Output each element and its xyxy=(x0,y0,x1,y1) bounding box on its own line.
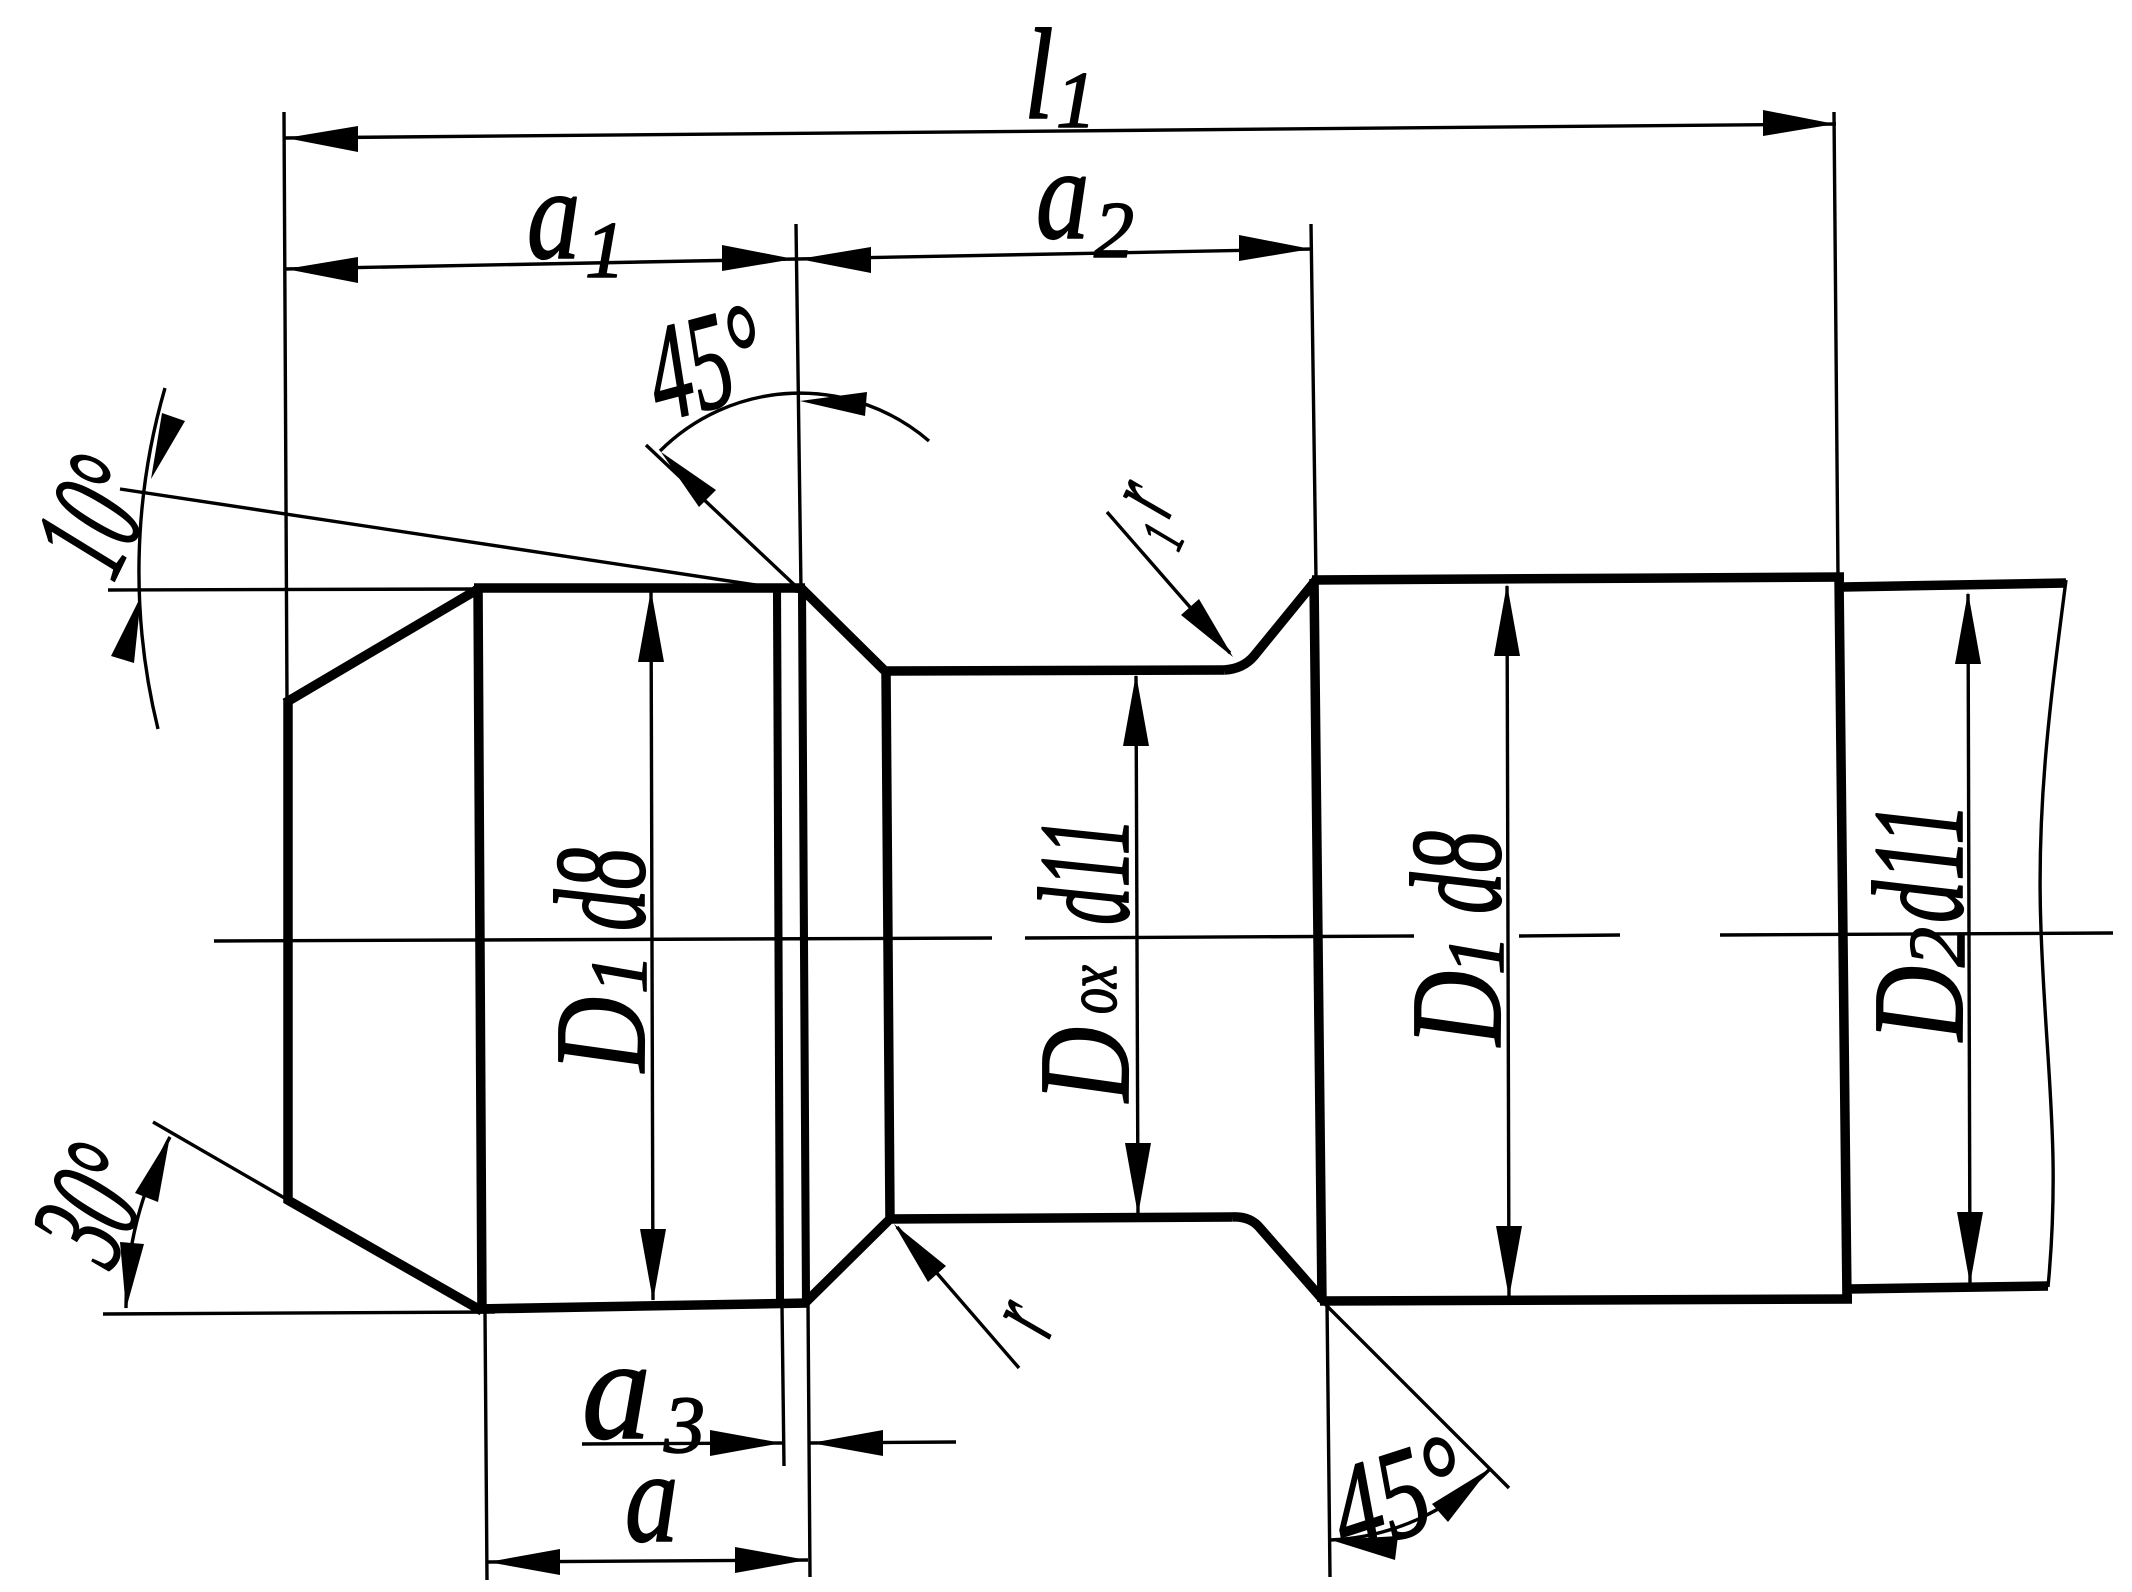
45-deg bottom arrowhead at diagonal xyxy=(1432,1469,1489,1522)
svg-text:1: 1 xyxy=(576,954,664,994)
break line (wavy) at right end xyxy=(2040,580,2066,1287)
a3 right extension line xyxy=(808,1303,810,1577)
a2 left arrowhead xyxy=(799,247,871,273)
Dox bottom arrowhead xyxy=(1125,1143,1151,1215)
Dox top arrowhead xyxy=(1123,674,1149,746)
45-deg chamfer bottom (to neck) xyxy=(806,1219,890,1302)
svg-text:a: a xyxy=(625,1425,678,1569)
shaft nose top 30-deg chamfer xyxy=(285,588,480,703)
neck-to-right-cylinder bottom fillet and diagonal xyxy=(1232,1217,1324,1301)
centerline segment 2 xyxy=(1025,936,1414,938)
svg-text:D: D xyxy=(1847,966,1991,1043)
svg-text:d11: d11 xyxy=(1846,803,1991,923)
30-deg upper arrowhead xyxy=(135,1136,170,1202)
svg-text:2: 2 xyxy=(1094,187,1134,275)
30-deg horizontal reference line xyxy=(103,1312,495,1314)
svg-text:D: D xyxy=(1013,1027,1157,1104)
left cylinder bottom edge xyxy=(477,1303,808,1309)
D2 dimension line xyxy=(1968,594,1970,1283)
D2 bottom arrowhead xyxy=(1957,1212,1983,1284)
svg-text:d8: d8 xyxy=(528,848,672,931)
D2 section top edge xyxy=(1843,583,2066,587)
D1 right dimension line xyxy=(1507,586,1509,1297)
a left arrowhead xyxy=(488,1549,560,1575)
l1 right extension line xyxy=(1834,112,1838,577)
a2 extension line right xyxy=(1311,224,1316,579)
neck bottom edge xyxy=(887,1217,1232,1219)
45-deg angle arc xyxy=(660,393,929,451)
left cylinder left edge xyxy=(478,586,482,1312)
a1/a2 middle extension line xyxy=(796,224,801,590)
svg-text:a: a xyxy=(1036,122,1089,266)
a3 dimension line left part xyxy=(582,1443,783,1444)
D1 left bottom arrowhead xyxy=(640,1229,666,1301)
shaft nose bottom 30-deg chamfer xyxy=(286,1199,482,1311)
a2 right arrowhead xyxy=(1239,235,1311,261)
a left extension line xyxy=(485,1312,487,1580)
D1 right top arrowhead xyxy=(1494,584,1520,656)
a right arrowhead xyxy=(735,1547,807,1573)
groove vertical line 2 xyxy=(802,589,806,1301)
shaft nose tip face (left vertical edge) xyxy=(283,699,293,1203)
D1 left top arrowhead xyxy=(638,590,664,662)
D1 left dimension line xyxy=(651,592,653,1300)
svg-text:2: 2 xyxy=(1894,927,1982,967)
centerline segment 4 xyxy=(1720,933,2113,935)
svg-text:1: 1 xyxy=(1433,935,1521,975)
45-deg bottom angle arc xyxy=(1330,1469,1490,1540)
centerline segment 3 xyxy=(1519,935,1620,936)
a dimension line xyxy=(487,1560,808,1562)
l1 left arrowhead xyxy=(286,126,358,152)
45-deg arrowhead on line xyxy=(661,452,716,507)
30-deg angle arc xyxy=(126,1137,170,1308)
svg-text:a: a xyxy=(527,142,580,286)
45-deg chamfer top (to neck) xyxy=(801,588,887,673)
45-deg arrowhead at vertical xyxy=(800,392,867,416)
10-deg horizontal reference line xyxy=(108,589,478,590)
30-deg lower arrowhead xyxy=(120,1242,144,1309)
right cylinder right face xyxy=(1839,577,1847,1300)
left cylinder top edge xyxy=(474,583,805,593)
a3 left extension line xyxy=(782,1306,784,1466)
D2 top arrowhead xyxy=(1955,592,1981,664)
l1 left extension line xyxy=(284,112,287,700)
a1 dimension line xyxy=(285,259,795,269)
right cylinder left face xyxy=(1314,579,1322,1302)
neck-to-right-cylinder top fillet r1 and diagonal xyxy=(1224,580,1316,670)
30-deg construction line xyxy=(153,1122,480,1311)
svg-text:D: D xyxy=(529,997,673,1074)
r1 leader line xyxy=(1107,512,1230,653)
right cylinder top edge xyxy=(1312,577,1844,580)
svg-text:D: D xyxy=(1385,971,1529,1048)
svg-text:d8: d8 xyxy=(1384,831,1528,914)
neck top edge xyxy=(883,670,1224,671)
10-deg angle arc xyxy=(139,388,165,729)
10-deg lower arrowhead xyxy=(111,596,141,663)
a3 dimension line right part xyxy=(810,1442,956,1443)
Dox dimension line xyxy=(1136,676,1138,1213)
r1 arrowhead xyxy=(1181,599,1233,657)
l1 right arrowhead xyxy=(1763,110,1835,136)
a2 dimension line xyxy=(798,249,1312,259)
l1 dimension line xyxy=(285,124,1836,138)
D1 right bottom arrowhead xyxy=(1496,1226,1522,1298)
10-deg upper arrowhead xyxy=(151,413,185,479)
groove vertical line 1 xyxy=(777,590,780,1302)
r arrowhead xyxy=(894,1224,946,1282)
a1 left arrowhead xyxy=(286,257,358,283)
45-deg construction line xyxy=(646,445,803,593)
45-deg bottom arrowhead at vertical xyxy=(1331,1536,1398,1560)
45-deg bottom vertical extension line xyxy=(1327,1302,1330,1577)
45-deg bottom construction line xyxy=(1323,1302,1509,1488)
10-deg construction line xyxy=(120,489,802,592)
neck left face xyxy=(886,671,890,1220)
right cylinder bottom edge xyxy=(1320,1299,1852,1301)
a3 arrowhead pointing right xyxy=(710,1430,782,1456)
svg-text:d11: d11 xyxy=(1012,818,1156,925)
r leader line xyxy=(897,1227,1019,1368)
D2 section bottom edge xyxy=(1849,1286,2048,1289)
a3 arrowhead pointing left xyxy=(811,1430,883,1456)
svg-text:ox: ox xyxy=(1052,965,1132,1014)
a1 right arrowhead xyxy=(722,245,794,271)
centerline segment 1 xyxy=(214,938,992,941)
svg-text:1: 1 xyxy=(585,207,625,295)
